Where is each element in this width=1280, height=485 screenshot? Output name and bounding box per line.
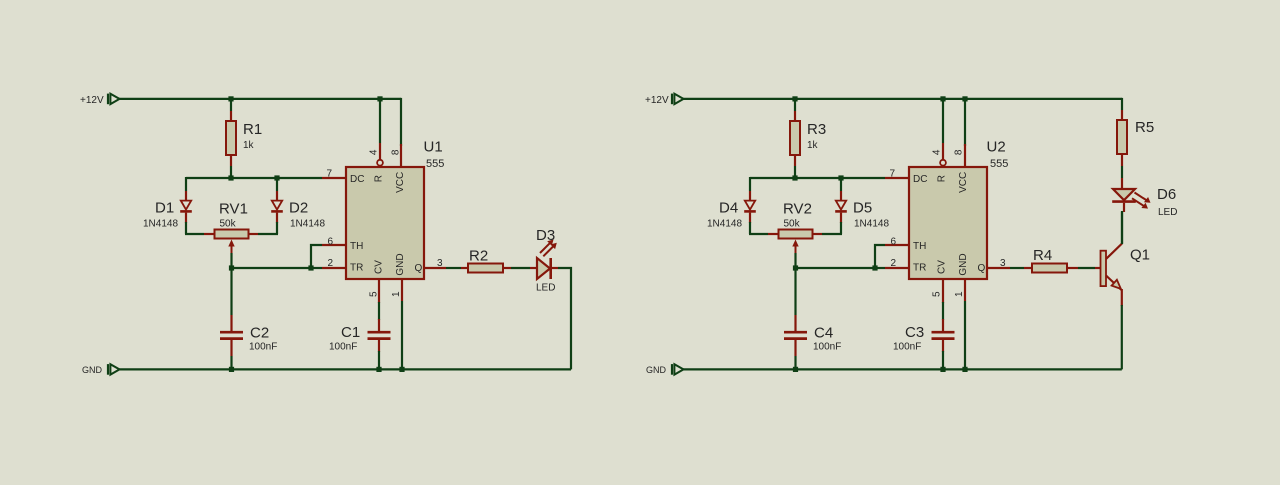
svg-text:D1: D1 (155, 200, 174, 217)
svg-text:C3: C3 (905, 324, 924, 341)
junction DC-D2 (274, 175, 279, 180)
diode D5 (835, 201, 847, 212)
wire D3 to ground rail (558, 268, 571, 369)
svg-text:CV: CV (936, 260, 947, 274)
power terminal +12V (right) (672, 94, 684, 105)
pin D5 anode (840, 191, 842, 201)
capacitor C4 (784, 332, 807, 338)
wire D6 to Q1 collector (1121, 211, 1123, 244)
svg-text:1N4148: 1N4148 (143, 219, 178, 230)
svg-text:GND: GND (82, 365, 103, 375)
wire R4 to Q1 base (1078, 267, 1095, 269)
pin D6 cathode (1123, 203, 1125, 212)
resistor R4 (1032, 264, 1067, 273)
svg-text:3: 3 (1000, 258, 1006, 269)
svg-text:GND: GND (958, 253, 969, 275)
junction rail-R3 (792, 96, 797, 101)
wire RV2 wiper down (794, 253, 796, 268)
pin 5 stub U1 (378, 279, 380, 303)
pin D5 cathode (840, 213, 842, 223)
pin C3 bottom (942, 339, 944, 352)
pin 2 stub U1 (322, 267, 346, 269)
wire rail to R3 (794, 99, 796, 111)
pin R1 bottom (230, 155, 232, 166)
wire TR horizontal (left) (232, 267, 312, 269)
pin 8 stub U2 (964, 144, 966, 167)
svg-text:7: 7 (327, 168, 333, 179)
pin 6 stub U2 (885, 244, 909, 246)
wire D4-RV2 horizontal (749, 233, 768, 235)
pin D4 anode (749, 191, 751, 201)
svg-text:R3: R3 (807, 121, 826, 138)
wire R3 to DC node (794, 166, 796, 178)
junction rail-pin4 (right) (940, 96, 945, 101)
pin R4 right (1067, 267, 1078, 269)
junction gnd-C1 (376, 367, 381, 372)
svg-text:1k: 1k (243, 140, 255, 151)
wire rail to pin4 (left) (379, 99, 381, 143)
inversion bubble pin4 U1 (377, 160, 383, 166)
capacitor C1 (368, 332, 391, 338)
wire rail to pin4 (right) (942, 99, 944, 143)
wire rail corner to R5 (1121, 98, 1123, 110)
svg-text:TR: TR (350, 263, 363, 274)
svg-text:1: 1 (391, 291, 402, 297)
wire ground rail (right) (683, 368, 1122, 370)
pin 1 stub U2 (964, 279, 966, 301)
capacitor C2 (220, 332, 243, 338)
wire pin3 to R4 (1010, 267, 1024, 269)
junction gnd-pin1 (left) (399, 367, 404, 372)
svg-text:R5: R5 (1135, 119, 1154, 136)
wire rail corner to pin 8 (left) (400, 98, 402, 143)
pin 3 stub U2 (987, 267, 1010, 269)
svg-text:100nF: 100nF (813, 342, 841, 353)
diode D1 (180, 201, 192, 212)
pin C4 top (794, 315, 796, 332)
junction rail-pin8 (right) (962, 96, 967, 101)
wire rail to R1 (230, 99, 232, 111)
wire Q1 collector up (1121, 212, 1123, 244)
ground terminal GND (left) (108, 364, 120, 375)
wire D4 to RV2 left (749, 222, 751, 234)
pin D1 anode (185, 191, 187, 201)
pin 7 stub U1 (322, 177, 346, 179)
svg-text:Q: Q (978, 263, 986, 274)
wire R2 to D3 (511, 267, 530, 269)
pin C2 bottom (230, 339, 232, 356)
pin 3 stub U1 (424, 267, 446, 269)
wire TR horizontal (right) (796, 267, 876, 269)
junction gnd-C4 (793, 367, 798, 372)
wire DC to D1 (185, 177, 187, 191)
svg-text:555: 555 (990, 158, 1008, 170)
junction rail-pin4 (left) (377, 96, 382, 101)
pin 8 stub U1 (400, 144, 402, 167)
junction gnd-pin1 (right) (962, 367, 967, 372)
svg-text:50k: 50k (784, 219, 801, 230)
svg-text:7: 7 (890, 168, 896, 179)
pin Q1 base (1095, 267, 1101, 269)
pin 4 stub U1 (379, 143, 381, 160)
wire C4 to ground rail (794, 356, 796, 369)
wire D5 to RV2 right (840, 222, 842, 234)
diode D2 (271, 201, 283, 212)
pin D3 cathode (551, 267, 558, 269)
wire D1 to RV1 left (185, 222, 187, 234)
pin R5 bottom (1121, 154, 1123, 166)
wire C2 to ground rail (230, 356, 232, 369)
wire pin1 to ground rail (401, 301, 403, 369)
wire pin5 to C1 (378, 302, 380, 320)
wire R5 to D6 (1121, 166, 1123, 178)
op-chip U2 555 body (909, 167, 987, 279)
pin 7 stub U2 (885, 177, 909, 179)
junction DC-D5 (838, 175, 843, 180)
resistor R1 (226, 121, 236, 155)
wire DC node horizontal (right) (750, 177, 885, 179)
svg-text:Q: Q (415, 263, 423, 274)
svg-text:C1: C1 (341, 324, 360, 341)
svg-text:8: 8 (954, 149, 965, 155)
svg-text:C2: C2 (250, 324, 269, 341)
pin C4 bottom (794, 339, 796, 356)
svg-text:RV2: RV2 (783, 201, 812, 218)
svg-text:5: 5 (369, 291, 380, 297)
wire TR to pin2 (right) (875, 267, 885, 269)
pin 2 stub U2 (885, 267, 909, 269)
svg-text:4: 4 (369, 149, 380, 155)
svg-text:100nF: 100nF (329, 341, 357, 352)
resistor R3 (790, 121, 800, 155)
resistor R2 (468, 264, 503, 273)
svg-text:CV: CV (373, 260, 384, 274)
pin R3 bottom (794, 155, 796, 166)
pin R3 top (794, 111, 796, 121)
led D3 (537, 240, 557, 280)
svg-text:LED: LED (1158, 207, 1177, 218)
svg-text:R2: R2 (469, 248, 488, 265)
wire TR node down to C2 (230, 268, 232, 315)
wire ground rail (left) (119, 368, 572, 370)
pin 1 stub U1 (401, 279, 403, 301)
wire C3 to ground rail (942, 351, 944, 369)
wire TR node down to C4 (794, 268, 796, 315)
junction TR-TH (right) (872, 265, 877, 270)
svg-text:TR: TR (913, 263, 926, 274)
led D6 (1112, 189, 1150, 209)
wire Q1 emitter down pin (1121, 289, 1123, 306)
svg-text:TH: TH (913, 241, 926, 252)
inversion bubble pin4 U2 (940, 160, 946, 166)
junction DC-R1 (228, 175, 233, 180)
svg-text:50k: 50k (220, 219, 237, 230)
wire +12V top rail (left) (119, 98, 402, 100)
svg-text:D6: D6 (1157, 186, 1176, 203)
svg-text:+12V: +12V (645, 95, 669, 106)
svg-text:R: R (373, 175, 384, 182)
svg-text:U2: U2 (987, 138, 1006, 155)
pin D2 anode (276, 191, 278, 201)
wire D1-RV1 horizontal (185, 233, 204, 235)
wire rail to pin8 (right) (964, 99, 966, 146)
resistor R5 (1117, 120, 1127, 154)
potentiometer RV2 (779, 230, 813, 255)
svg-text:3: 3 (437, 258, 443, 269)
svg-text:6: 6 (328, 236, 334, 247)
pin R2 right (503, 267, 511, 269)
svg-text:4: 4 (932, 149, 943, 155)
wire D2 to RV1 right (276, 222, 278, 234)
pin D6 anode (1121, 178, 1123, 189)
svg-text:DC: DC (350, 174, 364, 185)
diode D4 (744, 201, 756, 212)
op-chip U1 555 body (346, 167, 424, 279)
svg-text:2: 2 (891, 258, 897, 269)
pin D4 cathode (749, 213, 751, 223)
svg-text:1N4148: 1N4148 (854, 219, 889, 230)
wire DC to D4 (749, 177, 751, 191)
svg-text:100nF: 100nF (249, 342, 277, 353)
wire Q1 emitter to ground rail (1121, 305, 1123, 369)
pin C2 top (230, 315, 232, 332)
pin C1 bottom (378, 339, 380, 352)
wire TR to pin2 (left) (311, 267, 322, 269)
svg-text:1N4148: 1N4148 (707, 219, 742, 230)
pin C3 top (942, 319, 944, 332)
wire pin5 to C3 (942, 302, 944, 320)
svg-text:+12V: +12V (80, 95, 104, 106)
transistor Q1 (1101, 244, 1123, 291)
pin 5 stub U2 (942, 279, 944, 303)
svg-text:2: 2 (328, 258, 334, 269)
wire DC to D5 (840, 178, 842, 191)
svg-text:VCC: VCC (958, 172, 969, 193)
pin RV1 left (204, 233, 214, 235)
svg-text:GND: GND (646, 365, 667, 375)
junction TR-TH (left) (308, 265, 313, 270)
wire RV2-D5 horizontal (822, 233, 842, 235)
pin R2 left (461, 267, 468, 269)
power terminal +12V (left) (108, 94, 120, 105)
svg-text:8: 8 (391, 149, 402, 155)
svg-text:R4: R4 (1033, 247, 1052, 264)
svg-text:DC: DC (913, 174, 927, 185)
junction wiper-TR (right) (793, 265, 798, 270)
junction wiper-TR (left) (229, 265, 234, 270)
svg-text:1k: 1k (807, 140, 819, 151)
wire DC node horizontal (186, 177, 322, 179)
pin D2 cathode (276, 213, 278, 223)
pin RV2 right (812, 233, 822, 235)
wire TH loop (left) (311, 245, 322, 268)
pin 6 stub U1 (322, 244, 346, 246)
pin R5 top (1121, 110, 1123, 120)
ground terminal GND (right) (672, 364, 684, 375)
pin RV2 left (768, 233, 778, 235)
svg-text:LED: LED (536, 282, 555, 293)
svg-text:TH: TH (350, 241, 363, 252)
svg-text:U1: U1 (424, 138, 443, 155)
svg-text:D5: D5 (853, 200, 872, 217)
potentiometer RV1 (215, 230, 249, 255)
svg-text:555: 555 (426, 158, 444, 170)
svg-text:D2: D2 (289, 200, 308, 217)
svg-text:6: 6 (891, 236, 897, 247)
svg-text:100nF: 100nF (893, 341, 921, 352)
svg-text:R1: R1 (243, 121, 262, 138)
svg-text:Q1: Q1 (1130, 246, 1150, 263)
junction gnd-C3 (940, 367, 945, 372)
wire TH loop (right) (875, 245, 885, 268)
svg-text:C4: C4 (814, 324, 833, 341)
pin D1 cathode (185, 213, 187, 223)
pin 4 stub U2 (942, 143, 944, 160)
wire pin1 to ground rail (right) (964, 301, 966, 369)
svg-text:1N4148: 1N4148 (290, 219, 325, 230)
svg-text:GND: GND (395, 253, 406, 275)
capacitor C3 (932, 332, 955, 338)
svg-text:D4: D4 (719, 200, 738, 217)
wire +12V top rail (right) (683, 98, 1123, 100)
wire R1 to DC node (230, 166, 232, 178)
junction gnd-C2 (229, 367, 234, 372)
junction DC-R3 (792, 175, 797, 180)
svg-text:R: R (936, 175, 947, 182)
wire C1 to ground rail (378, 351, 380, 369)
pin R4 left (1024, 267, 1032, 269)
wire pin3 to R2 (446, 267, 461, 269)
pin D3 anode (530, 267, 537, 269)
svg-text:5: 5 (932, 291, 943, 297)
pin RV1 right (248, 233, 258, 235)
svg-text:VCC: VCC (395, 172, 406, 193)
svg-text:1: 1 (954, 291, 965, 297)
pin R1 top (230, 111, 232, 121)
svg-text:D3: D3 (536, 227, 555, 244)
wire RV1 wiper down (230, 253, 232, 268)
wire RV1-D2 horizontal (258, 233, 278, 235)
wire rail to pin8 (left) (400, 143, 402, 146)
svg-text:RV1: RV1 (219, 201, 248, 218)
pin C1 top (378, 319, 380, 332)
wire DC to D2 (276, 178, 278, 191)
junction rail-R1 (left) (228, 96, 233, 101)
